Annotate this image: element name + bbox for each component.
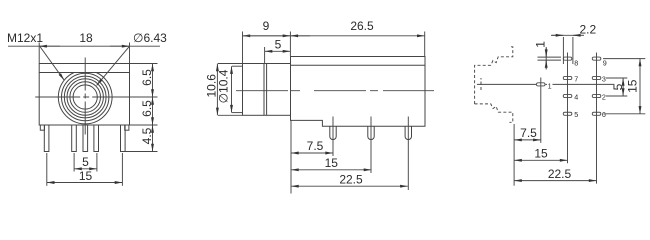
thread circle outer (clipped at flange line) bbox=[58, 73, 112, 124]
hidden body outline dashed top bbox=[475, 47, 513, 104]
pin A centerline bbox=[332, 117, 334, 157]
pin B outline bbox=[368, 126, 374, 139]
svg-text:7: 7 bbox=[574, 74, 578, 83]
extension line body right bbox=[424, 32, 426, 57]
right dim extension row4 bbox=[604, 113, 645, 115]
pin B centerline bbox=[370, 117, 372, 174]
dim 15 line vertical bbox=[639, 59, 641, 114]
chain dim line 4.5 bbox=[152, 125, 154, 152]
chain dim line 6.5 top bbox=[152, 64, 154, 98]
centerline horizontal bbox=[35, 96, 157, 98]
pad 9 bbox=[592, 57, 601, 60]
svg-text:9: 9 bbox=[263, 19, 270, 33]
svg-text:7.5: 7.5 bbox=[307, 139, 324, 153]
svg-text:5: 5 bbox=[611, 83, 625, 90]
pin 1 (left) bbox=[44, 125, 49, 152]
svg-text:3: 3 bbox=[602, 74, 606, 83]
pin 4 bbox=[94, 125, 99, 152]
pad 1 bbox=[536, 83, 545, 86]
svg-text:5: 5 bbox=[275, 38, 282, 52]
svg-text:9: 9 bbox=[603, 58, 607, 67]
dim 22.5 bottom line bbox=[514, 180, 596, 182]
svg-text:22.5: 22.5 bbox=[339, 173, 363, 187]
pin 5 (right) bbox=[121, 125, 126, 152]
left extension line bbox=[290, 120, 292, 193]
right chain extension mid bbox=[131, 96, 158, 98]
dim line 10.4 bbox=[231, 66, 233, 112]
right dim extension row1 bbox=[603, 58, 645, 60]
right chain extension top bbox=[130, 63, 158, 65]
centerline tick bbox=[480, 78, 482, 92]
extension line right bbox=[129, 43, 131, 64]
dim 2.2 line bbox=[551, 34, 580, 36]
dim 9 / 26.5 line bbox=[243, 35, 425, 37]
leader 6.43 bbox=[97, 47, 130, 86]
dim line 10.6 bbox=[216, 64, 218, 116]
barrel groove line b bbox=[266, 64, 268, 116]
svg-text:26.5: 26.5 bbox=[350, 19, 374, 33]
body top inner line bbox=[291, 64, 426, 66]
dim 1 extension top bbox=[538, 56, 562, 58]
pad 8 bbox=[563, 57, 572, 60]
dim 1 extension bottom bbox=[538, 59, 562, 61]
thread circle 3 bbox=[64, 76, 106, 118]
svg-text:6.5: 6.5 bbox=[140, 69, 154, 86]
body outline bbox=[291, 57, 426, 127]
pad 3 bbox=[592, 76, 601, 79]
mount notch left bbox=[40, 125, 44, 130]
svg-text:2.2: 2.2 bbox=[580, 23, 597, 37]
barrel groove line a bbox=[263, 64, 265, 116]
svg-text:6: 6 bbox=[602, 110, 606, 119]
svg-text:4: 4 bbox=[574, 92, 578, 101]
dim 5 line vertical bbox=[622, 78, 624, 96]
right chain extension pin bottom bbox=[126, 151, 158, 153]
svg-text:22.5: 22.5 bbox=[548, 167, 572, 181]
dim 5 extension lines bbox=[73, 153, 75, 172]
thread circle 4 bbox=[67, 79, 103, 115]
dim 7.5 bottom line bbox=[514, 139, 541, 141]
extension line groove bbox=[264, 47, 266, 63]
barrel outline bbox=[243, 64, 291, 116]
view centerline horizontal bbox=[477, 83, 536, 85]
pin C centerline bbox=[407, 117, 409, 191]
extension line left bbox=[38, 43, 40, 64]
svg-text:M12x1: M12x1 bbox=[7, 31, 43, 45]
flange line bbox=[39, 72, 129, 74]
extension line body left bbox=[289, 32, 291, 57]
dim 2.2 extension left bbox=[562, 37, 564, 64]
dim 5 line bbox=[74, 168, 97, 170]
svg-text:15: 15 bbox=[79, 169, 93, 183]
pad 5 bbox=[563, 112, 572, 115]
dim 18 arrows bbox=[39, 45, 60, 47]
pin C outline bbox=[405, 126, 411, 139]
hole circle 6.43 bbox=[70, 82, 101, 113]
pad 4 bbox=[563, 94, 572, 97]
svg-text:8: 8 bbox=[574, 58, 578, 67]
pad 7 bbox=[563, 76, 572, 79]
svg-text:1: 1 bbox=[548, 81, 552, 90]
bottom left extension bbox=[513, 124, 515, 186]
extension line barrel left bbox=[242, 32, 244, 64]
pin A outline bbox=[330, 126, 336, 139]
inner circle bbox=[73, 85, 97, 109]
svg-text:15: 15 bbox=[626, 79, 640, 93]
pad 1 column line bbox=[540, 78, 542, 143]
dim 22.5 line bbox=[291, 185, 408, 187]
svg-text:15: 15 bbox=[534, 146, 548, 160]
svg-text:18: 18 bbox=[79, 31, 93, 45]
svg-text:15: 15 bbox=[325, 156, 339, 170]
pad 6 bbox=[592, 112, 601, 115]
mount notch right bbox=[125, 125, 129, 130]
dim 15 line bbox=[291, 169, 371, 171]
svg-text:2: 2 bbox=[602, 92, 606, 101]
pin 2 bbox=[72, 125, 77, 152]
svg-text:∅6.43: ∅6.43 bbox=[133, 31, 167, 45]
hidden body outline dashed bottom bbox=[475, 104, 513, 122]
pad 2 bbox=[592, 94, 601, 97]
svg-text:∅10.4: ∅10.4 bbox=[216, 69, 230, 103]
bore extension top bbox=[232, 65, 243, 67]
chain dim line 6.5 bottom bbox=[152, 97, 154, 125]
svg-text:7.5: 7.5 bbox=[520, 126, 537, 140]
bore extension bottom bbox=[232, 112, 243, 114]
leader M12x1 bbox=[40, 47, 64, 81]
right dim extension row3 bbox=[606, 95, 627, 97]
pad column line left bbox=[567, 53, 569, 164]
svg-text:5: 5 bbox=[574, 110, 578, 119]
body outline bbox=[39, 64, 129, 126]
svg-text:6.5: 6.5 bbox=[140, 100, 154, 117]
thread circle 2 bbox=[61, 73, 108, 120]
dim 7.5 line bbox=[291, 152, 333, 154]
dim 15 bottom line bbox=[514, 159, 567, 161]
barrel extension bottom bbox=[218, 114, 243, 116]
svg-text:4.5: 4.5 bbox=[140, 127, 154, 144]
svg-text:5: 5 bbox=[82, 155, 89, 169]
dim 5 line bbox=[265, 50, 291, 52]
top dimension line bbox=[8, 45, 160, 47]
pad column line right bbox=[596, 53, 598, 184]
right chain extension body bottom bbox=[130, 124, 158, 126]
barrel extension top bbox=[218, 63, 243, 65]
dim 1 line bbox=[545, 47, 547, 70]
dim 15 line bbox=[47, 182, 123, 184]
centerline vertical bbox=[84, 58, 86, 136]
dim 15 extension lines bbox=[46, 153, 48, 186]
dim 2.2 extension right bbox=[572, 37, 574, 64]
svg-text:1: 1 bbox=[534, 41, 548, 48]
centerline bbox=[236, 90, 434, 92]
right dim extension row2 bbox=[606, 77, 627, 79]
pin 3 (center) bbox=[83, 125, 88, 152]
